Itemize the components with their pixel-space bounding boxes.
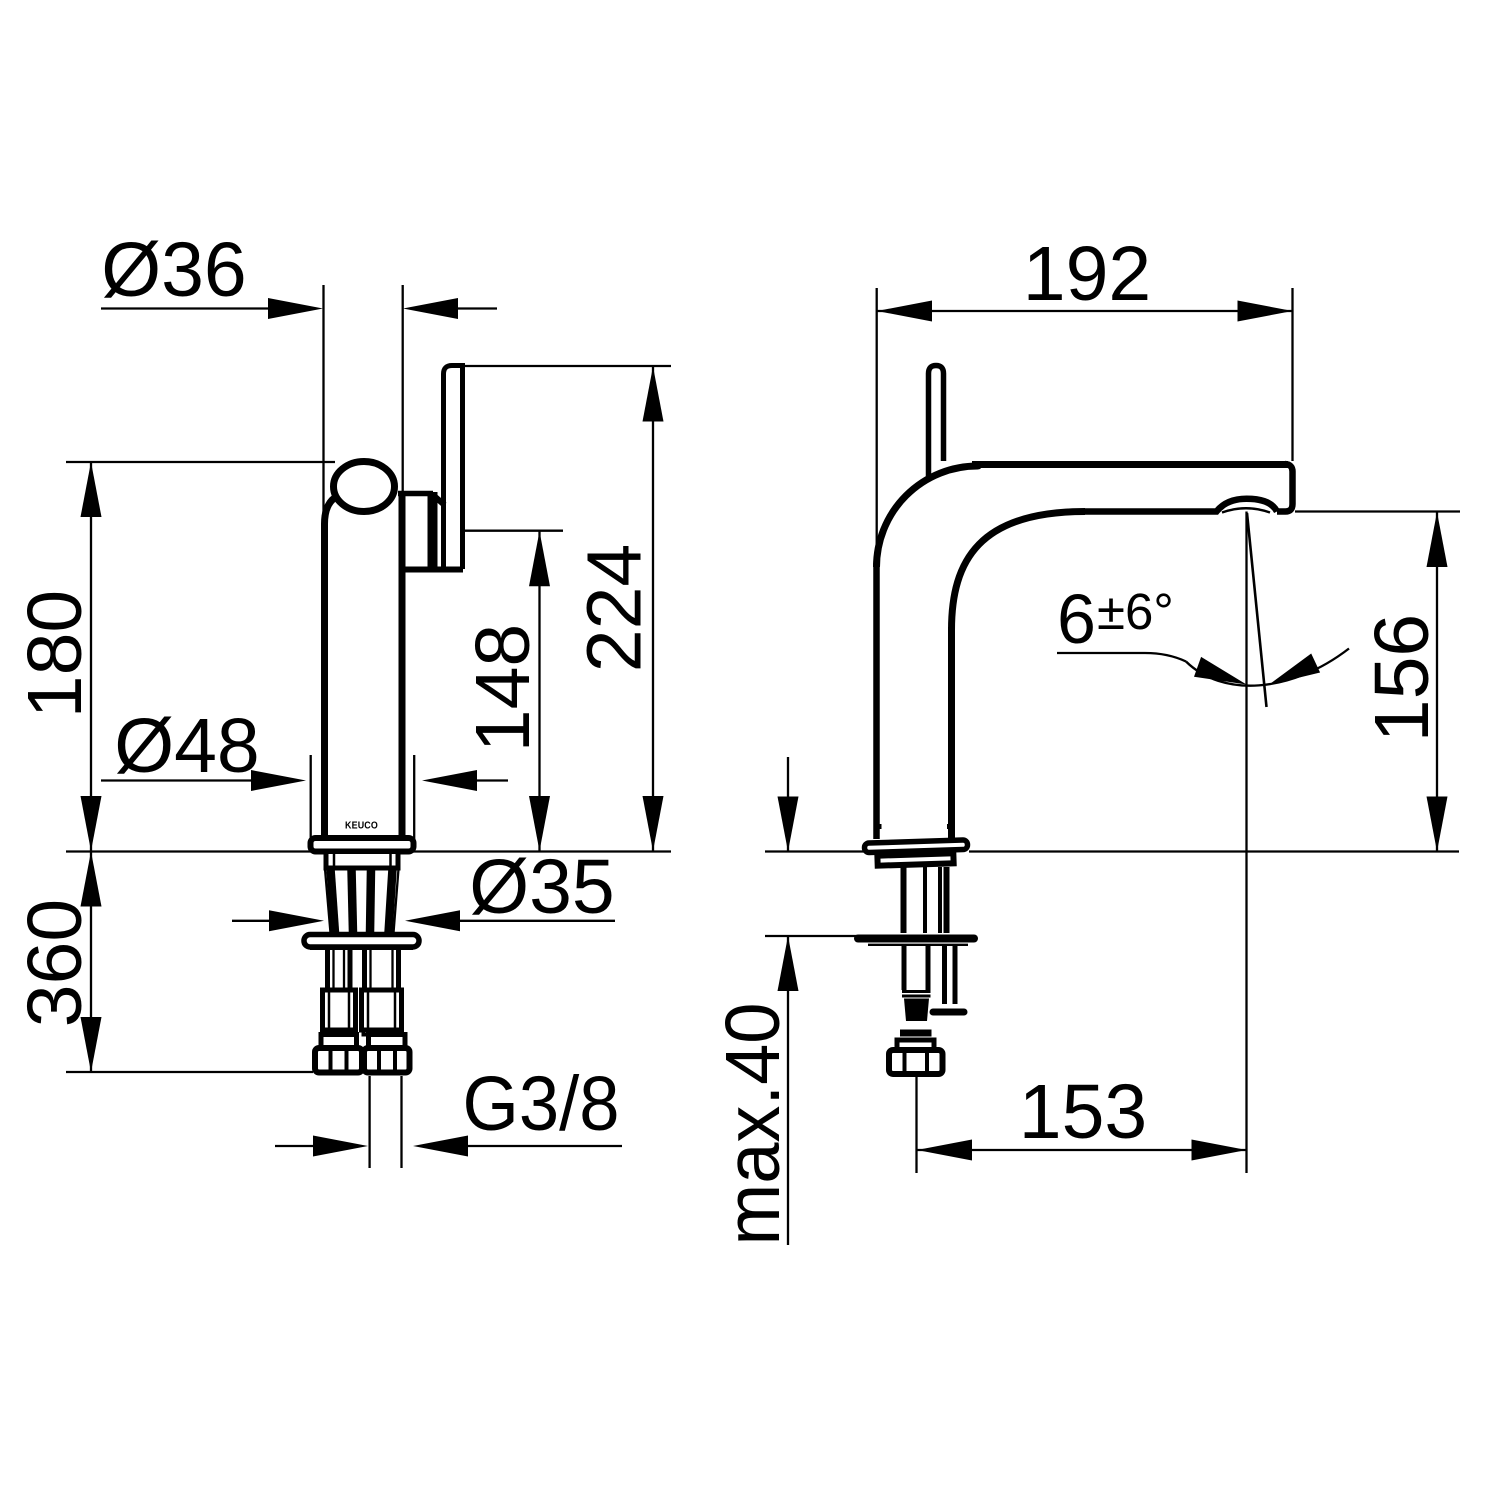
connector wedge [433,495,445,505]
svg-text:153: 153 [1019,1069,1147,1155]
flange side [864,840,967,853]
mounting tube side [902,946,907,991]
handle rod side [929,366,944,478]
right nut [364,1048,410,1073]
hose side [902,990,931,993]
washer front [304,935,419,948]
extension line 224 [465,365,671,367]
svg-text:KEUCO: KEUCO [345,820,378,832]
column left edge [873,563,880,839]
column joint ticks [879,824,882,829]
svg-text:224: 224 [572,544,658,672]
svg-text:Ø36: Ø36 [101,227,247,313]
reference line 180 top [66,461,335,463]
reference line max.40 bottom [765,935,858,937]
svg-text:148: 148 [460,624,546,752]
dim line G3/8 [275,1145,318,1147]
svg-text:6: 6 [1057,580,1096,658]
extension lines G3/8 [368,1076,370,1168]
handle plate front [444,366,463,570]
spout top edge [972,461,1288,468]
left hose step [326,1030,352,1035]
svg-text:360: 360 [12,899,98,1027]
svg-text:max.40: max.40 [710,1003,796,1246]
angle leader underline [1057,653,1186,662]
dim line Ø35 [232,920,276,922]
dim line 192 [877,310,1292,312]
svg-text:180: 180 [12,590,98,718]
mounting bracket side [942,946,947,1005]
counter reference line front [66,850,671,852]
dim line Ø36 [101,307,272,309]
svg-text:192: 192 [1023,231,1151,317]
extension line 156 top [1295,510,1460,512]
left nut [315,1048,362,1073]
shank side [901,867,907,933]
right hose front [362,947,367,990]
dim 156 [1436,512,1438,851]
svg-text:156: 156 [1359,614,1445,742]
spout underside with aerator bump [1085,499,1277,512]
nut side [889,1050,943,1074]
left nut collar [321,1035,357,1049]
dim 360 [90,851,92,1072]
counter reference line side [765,850,864,852]
dim 224 [652,366,654,851]
dim 148 [538,531,540,851]
right hose collar [362,990,402,1030]
left hose collar [323,990,356,1030]
shank tapered stripes front [325,869,331,933]
extension lines Ø48 [310,755,312,849]
right hose step [364,1030,399,1035]
inner bend [952,512,1086,631]
handle hub bar [428,492,438,570]
body column right edge [399,495,406,839]
extension line 148 [464,530,563,532]
left hose front [325,947,330,990]
connector bottom line [399,567,463,573]
dim line Ø48 [101,779,257,781]
dim max.40 [787,757,789,851]
outer bend [877,466,981,568]
aerator inner arc [1222,508,1270,512]
neck front [326,852,398,869]
right nut collar [369,1035,406,1049]
base block side [877,853,953,865]
svg-text:Ø48: Ø48 [114,703,260,789]
svg-text:G3/8: G3/8 [463,1061,620,1147]
extension lines Ø36 [322,285,324,528]
dim 180 [90,462,92,851]
extension line 153 left [915,1076,917,1173]
reference line 360 bottom [66,1071,313,1073]
angle arc [1186,649,1349,686]
column right edge [948,627,955,839]
spout tip edge [1277,464,1293,512]
ball joint [334,462,395,512]
dim 153 [917,1149,1246,1151]
extension lines 192 [876,288,878,560]
slanted 6 degree line [1247,513,1267,707]
svg-text:Ø35: Ø35 [469,844,615,930]
body column left edge [325,498,336,839]
washer side [858,935,974,943]
spout centerline [1245,512,1247,1174]
svg-text:±6°: ±6° [1097,583,1174,640]
connector top line [398,491,433,497]
base flange front [311,838,414,852]
